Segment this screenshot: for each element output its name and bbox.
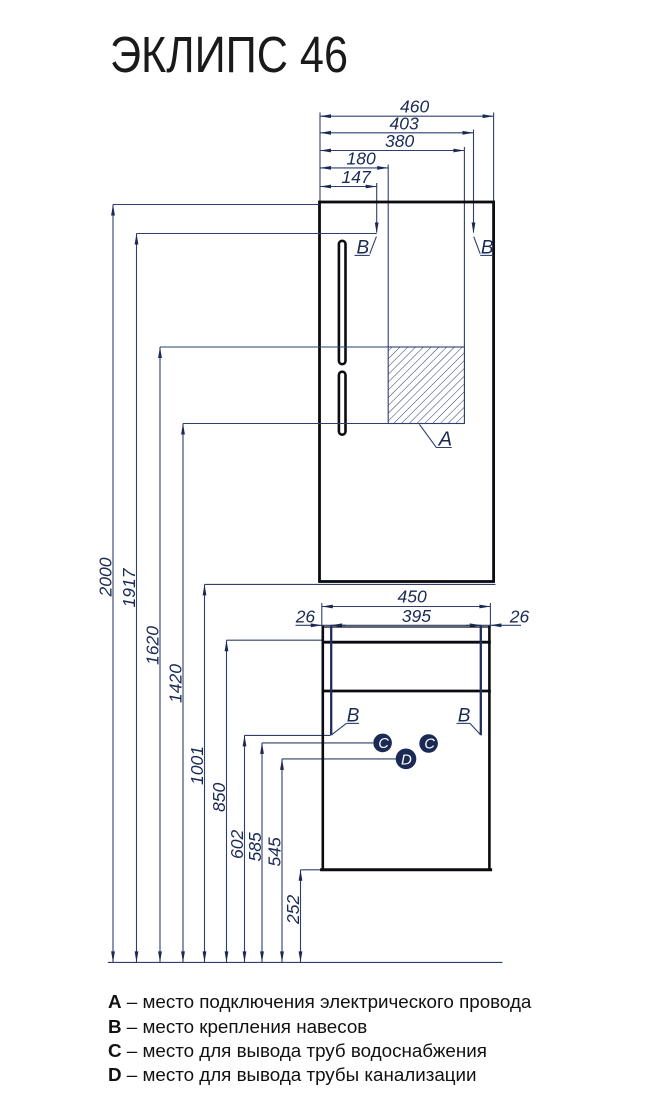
svg-text:26: 26	[295, 606, 316, 626]
dim 585 horizontal to C circle	[262, 742, 373, 744]
mounting line right (26)	[480, 625, 482, 735]
dim 602 vertical	[244, 735, 246, 962]
arrow down 403-ext at right B	[472, 223, 476, 234]
arrows dim 180	[320, 166, 331, 170]
lower-right B label	[457, 706, 481, 735]
arrows dim 460	[320, 114, 331, 118]
left height dimension verticals	[108, 205, 503, 963]
dim 602 horizontal to left B point	[245, 734, 331, 736]
svg-text:1420: 1420	[165, 664, 185, 703]
svg-text:147: 147	[342, 167, 372, 187]
extension line 403 to right B	[473, 130, 475, 233]
arrow 26 right (points left to edge)	[490, 623, 501, 627]
svg-text:1917: 1917	[119, 567, 139, 607]
dim line 26 left + 395 + 26 right	[296, 624, 347, 626]
handle slot upper	[339, 241, 346, 364]
drawer thick line	[322, 690, 491, 693]
extension line 180 to hatch left	[387, 165, 389, 348]
left side wall	[321, 626, 324, 871]
svg-text:380: 380	[385, 131, 414, 151]
svg-text:602: 602	[227, 830, 247, 859]
arrows 395 outward	[331, 623, 342, 627]
left B label (top cabinet)	[355, 237, 377, 259]
extension line 380 to hatch right	[463, 147, 465, 424]
dim 1420 vertical	[182, 424, 184, 963]
svg-text:545: 545	[265, 837, 285, 866]
svg-text:A – место подключения электрич: A – место подключения электрического про…	[108, 991, 532, 1012]
svg-text:252: 252	[283, 895, 303, 925]
legend	[108, 991, 532, 1085]
dim 1620 vertical	[159, 347, 161, 962]
handle slot lower	[339, 372, 346, 435]
leader for A	[419, 424, 451, 447]
mounting line left (26)	[330, 625, 332, 735]
svg-text:1620: 1620	[142, 626, 162, 665]
right B label (top cabinet)	[474, 237, 494, 259]
svg-text:850: 850	[209, 783, 229, 812]
dim 1420 horizontal to hatch bottom	[183, 423, 388, 425]
svg-text:585: 585	[245, 832, 265, 861]
tall cabinet outline	[320, 202, 494, 582]
hatched area A	[388, 347, 464, 424]
svg-text:450: 450	[398, 587, 427, 607]
dim 252 horizontal to cabinet bottom corner	[301, 869, 322, 871]
svg-text:C – место для вывода труб водо: C – место для вывода труб водоснабжения	[108, 1040, 487, 1061]
dim 850 horizontal to washstand top	[227, 639, 322, 641]
extension left 450	[321, 603, 323, 626]
bottom edge	[320, 868, 492, 871]
dim 1917 horizontal to left B point	[137, 233, 377, 235]
top edge thin	[322, 626, 491, 628]
dim line 403	[320, 132, 474, 134]
dim line 380	[320, 150, 464, 152]
floor line	[108, 961, 503, 963]
lower-left B label	[332, 706, 360, 735]
dim 252 vertical	[300, 870, 302, 963]
svg-text:1001: 1001	[187, 746, 207, 785]
C circle right	[419, 734, 438, 753]
dim line 460	[320, 115, 494, 117]
arrow 26 left (points right to edge)	[311, 623, 322, 627]
dim 1001 horizontal under cabinet bottom	[205, 583, 496, 585]
dim line 180	[320, 167, 388, 169]
dim 2000 vertical	[112, 205, 114, 963]
dim 1001 vertical	[204, 584, 206, 962]
svg-text:180: 180	[347, 149, 376, 169]
extension line left (460 family)	[319, 113, 321, 202]
right side wall	[488, 626, 491, 871]
svg-text:C: C	[378, 736, 389, 752]
dim line 450	[322, 606, 491, 608]
svg-text:C: C	[424, 737, 435, 753]
arrows dim 403	[320, 131, 331, 135]
D circle	[396, 749, 417, 770]
svg-text:395: 395	[402, 606, 431, 626]
arrows dim 147	[320, 185, 331, 189]
lower cabinet dims	[296, 603, 522, 626]
dim 2000 horizontal to cabinet top	[113, 204, 320, 206]
svg-text:B – место крепления навесов: B – место крепления навесов	[108, 1016, 367, 1037]
svg-text:26: 26	[509, 606, 530, 626]
svg-text:D: D	[401, 751, 412, 768]
dim line 147	[320, 186, 377, 188]
extension line 147 to left B	[376, 183, 378, 233]
arrows dim 380	[320, 149, 331, 153]
dim 585 vertical	[261, 743, 263, 963]
svg-text:D – место для вывода трубы кан: D – место для вывода трубы канализации	[108, 1064, 477, 1085]
arrow down 147-ext at left B	[375, 223, 379, 234]
svg-text:ЭКЛИПС 46: ЭКЛИПС 46	[110, 26, 348, 83]
C circle left	[373, 734, 392, 753]
svg-text:A: A	[438, 429, 452, 451]
up arrows at feature heights	[111, 205, 115, 216]
dim 1620 horizontal to hatch top	[160, 346, 388, 348]
arrows 450	[322, 605, 333, 609]
dim 850 vertical	[226, 640, 228, 962]
dim 545 horizontal to D circle	[282, 758, 397, 760]
dim 1917 vertical	[136, 234, 138, 963]
extension right 450	[489, 603, 491, 626]
svg-text:2000: 2000	[95, 557, 115, 597]
worktop thick line (850)	[322, 641, 491, 644]
down arrows at floor	[111, 951, 115, 962]
extension line right 460	[493, 113, 495, 202]
lower cabinet (washstand)	[320, 625, 492, 871]
dim 545 vertical	[281, 759, 283, 963]
